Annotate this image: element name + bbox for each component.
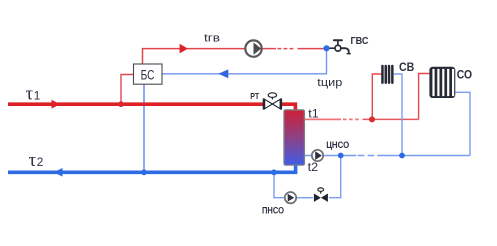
svg-text:t1: t1 — [308, 108, 319, 120]
svg-text:tгв: tгв — [204, 33, 220, 45]
svg-text:СВ: СВ — [399, 60, 415, 74]
svg-text:БС: БС — [141, 68, 155, 83]
svg-text:ПНСО: ПНСО — [262, 206, 284, 216]
svg-text:СО: СО — [457, 68, 472, 82]
svg-text:t2: t2 — [308, 162, 319, 174]
svg-text:ЦНСО: ЦНСО — [326, 140, 349, 150]
svg-text:ГВС: ГВС — [351, 35, 369, 47]
svg-text:РТ: РТ — [250, 91, 259, 101]
svg-text:tцир: tцир — [317, 77, 342, 89]
